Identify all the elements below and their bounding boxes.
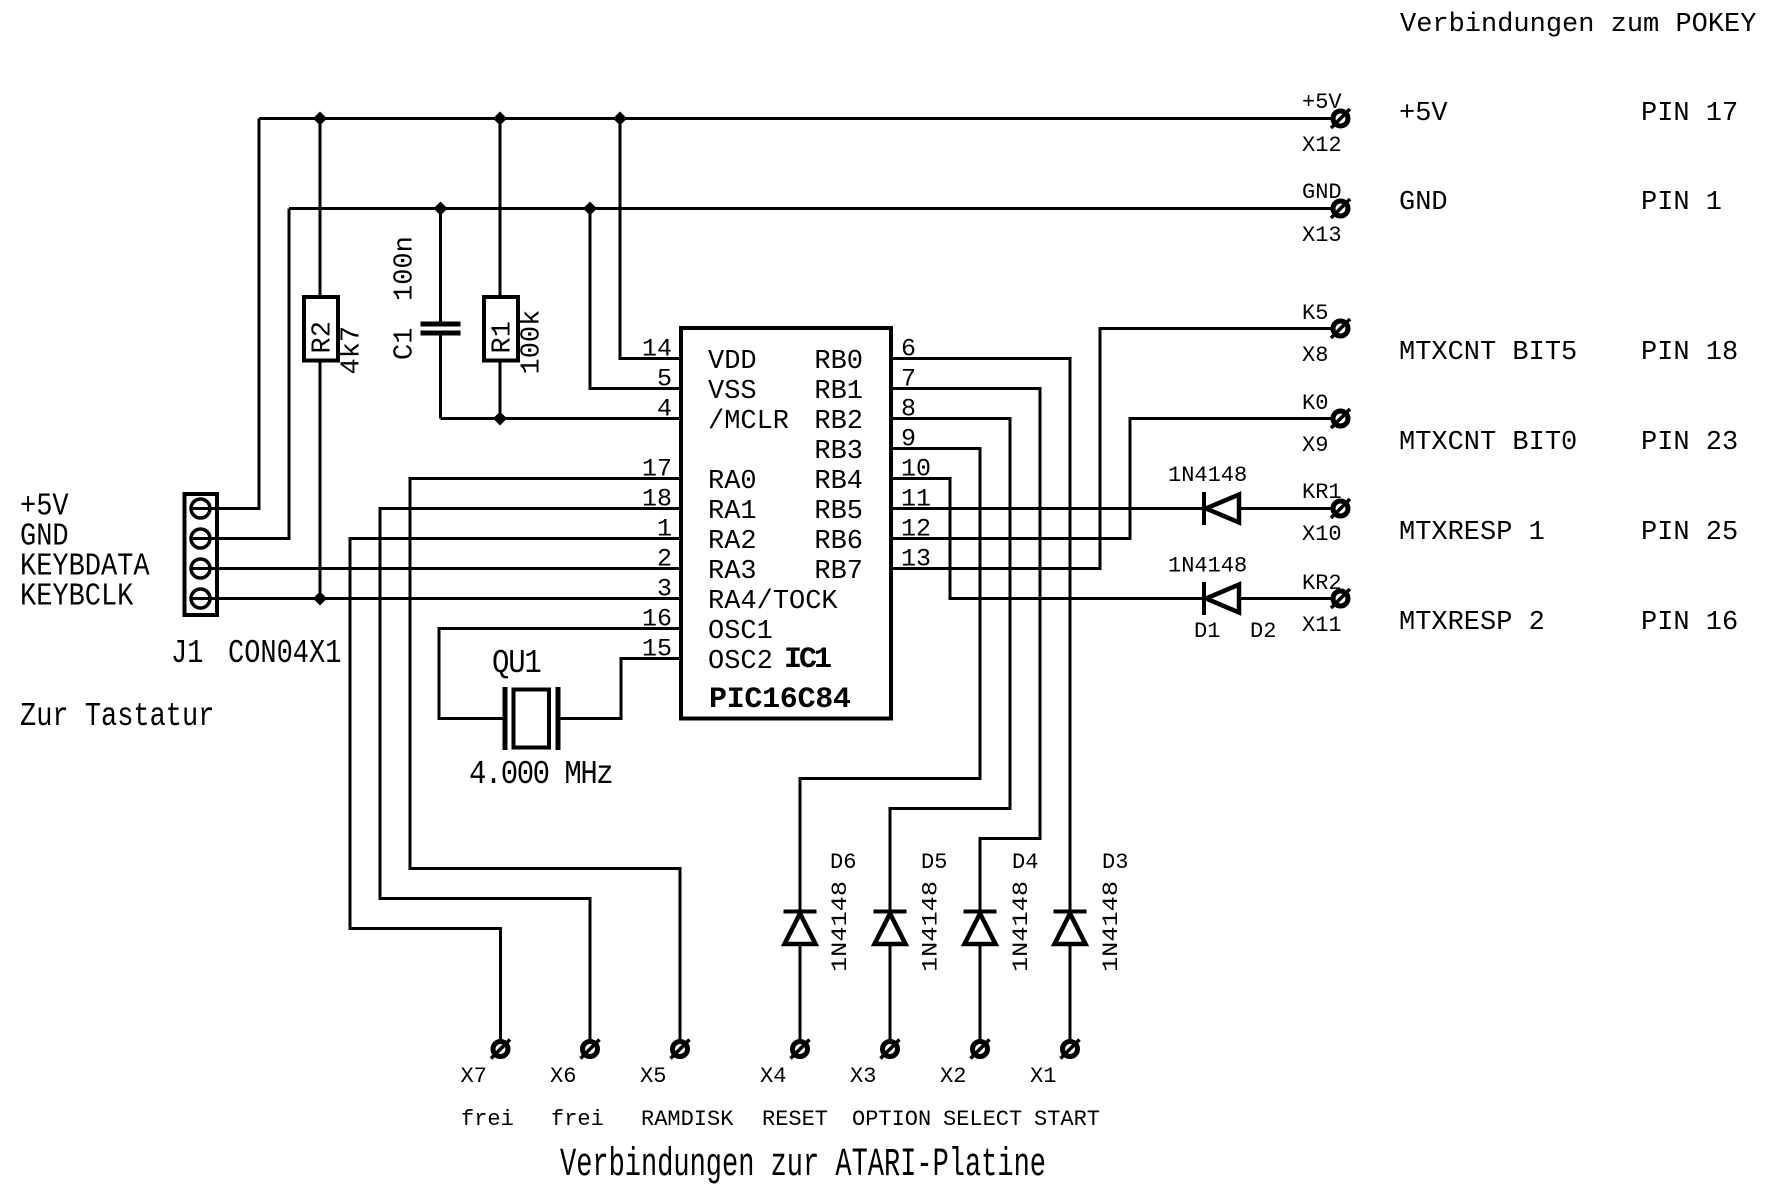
svg-text:+5V: +5V <box>1302 90 1342 115</box>
svg-text:1N4148: 1N4148 <box>1009 881 1034 972</box>
wire OSC1 pin16 to crystal <box>439 629 681 719</box>
svg-text:SELECT: SELECT <box>943 1107 1022 1132</box>
wire D2 to X11 <box>1239 597 1331 600</box>
svg-text:RA3: RA3 <box>708 557 757 587</box>
svg-text:12: 12 <box>901 515 931 544</box>
svg-text:D5: D5 <box>921 850 947 875</box>
svg-text:PIN 25: PIN 25 <box>1641 518 1738 548</box>
svg-text:+5V: +5V <box>1399 99 1448 129</box>
svg-text:D6: D6 <box>830 850 856 875</box>
node junction +5V/R1 <box>493 112 507 126</box>
wire RB6 pin12 K0 net to X9 <box>891 419 1331 539</box>
capacitor C1 <box>391 236 461 360</box>
diode D3 1N4148 <box>1054 850 1129 972</box>
svg-text:D2: D2 <box>1250 619 1276 644</box>
svg-text:X11: X11 <box>1302 613 1342 638</box>
svg-text:X6: X6 <box>550 1064 576 1089</box>
wire RB2 pin8 to D5 <box>890 419 1010 912</box>
svg-text:18: 18 <box>642 485 672 514</box>
op-amp IC1 PIC16C84 box <box>681 328 891 719</box>
wire RB0 pin6 to D3 <box>891 359 1070 912</box>
svg-text:X4: X4 <box>760 1064 786 1089</box>
svg-text:RESET: RESET <box>762 1107 828 1132</box>
svg-text:RB4: RB4 <box>814 467 863 497</box>
svg-text:CON04X1: CON04X1 <box>228 636 341 673</box>
node junction +5V/R2 <box>313 112 327 126</box>
svg-text:3: 3 <box>657 575 672 604</box>
svg-text:X9: X9 <box>1302 433 1328 458</box>
pad X11 <box>1302 571 1350 638</box>
svg-text:C1: C1 <box>391 328 421 360</box>
wire R1 top lead <box>499 119 502 298</box>
diode D1 1N4148 <box>1168 463 1247 644</box>
svg-text:X1: X1 <box>1030 1064 1056 1089</box>
svg-text:MTXCNT BIT5: MTXCNT BIT5 <box>1399 338 1577 368</box>
pad X5 <box>640 1040 690 1090</box>
node junction GND/C1 <box>434 202 448 216</box>
svg-text:R1: R1 <box>489 321 519 353</box>
pad X12 <box>1302 90 1350 158</box>
svg-text:8: 8 <box>901 395 916 424</box>
svg-text:100n: 100n <box>391 236 421 301</box>
pad X1 <box>1030 1040 1080 1090</box>
svg-text:OPTION: OPTION <box>852 1107 931 1132</box>
wire RA1 pin18 to X6 <box>380 509 681 1042</box>
svg-text:X7: X7 <box>461 1064 487 1089</box>
pad X2 <box>940 1040 990 1090</box>
svg-text:KR1: KR1 <box>1302 480 1342 505</box>
svg-text:J1: J1 <box>171 636 203 673</box>
svg-text:K5: K5 <box>1302 301 1328 326</box>
svg-text:2: 2 <box>657 545 672 574</box>
svg-text:4: 4 <box>657 395 672 424</box>
wire D6 to X4 <box>799 944 802 1041</box>
connector J1 CON04X1 <box>171 494 341 673</box>
svg-text:RA1: RA1 <box>708 497 757 527</box>
svg-text:11: 11 <box>901 485 931 514</box>
svg-text:X8: X8 <box>1302 343 1328 368</box>
resistor R1 <box>484 297 548 375</box>
svg-text:Zur Tastatur: Zur Tastatur <box>20 699 214 736</box>
svg-text:1N4148: 1N4148 <box>1099 881 1124 972</box>
wire R1 bottom lead to /MCLR net <box>499 361 502 419</box>
svg-text:10: 10 <box>901 455 931 484</box>
svg-text:X10: X10 <box>1302 522 1342 547</box>
svg-text:RB6: RB6 <box>814 527 863 557</box>
svg-text:4.000 MHz: 4.000 MHz <box>469 756 612 793</box>
diode D4 1N4148 <box>964 850 1039 972</box>
resistor R2 <box>304 297 368 375</box>
wire RA0 pin17 to X5 <box>410 479 681 1042</box>
svg-text:PIN 23: PIN 23 <box>1641 428 1738 458</box>
svg-text:17: 17 <box>642 455 672 484</box>
svg-text:X12: X12 <box>1302 133 1342 158</box>
svg-text:13: 13 <box>901 545 931 574</box>
svg-text:GND: GND <box>1302 180 1342 205</box>
pad X6 <box>550 1040 600 1090</box>
pad X13 <box>1302 180 1350 248</box>
wire RB4 pin10 KR2 net to D2 <box>891 479 1202 599</box>
svg-text:RA4/TOCK: RA4/TOCK <box>708 587 838 617</box>
svg-text:START: START <box>1034 1107 1100 1132</box>
wire OSC2 pin15 to crystal <box>561 659 682 719</box>
svg-text:1N4148: 1N4148 <box>1168 554 1247 579</box>
pad X9 <box>1302 391 1350 458</box>
wire KEYBDATA J1 pin3 to IC pin2 <box>211 567 682 570</box>
svg-text:Verbindungen zur ATARI-Platine: Verbindungen zur ATARI-Platine <box>560 1143 1046 1186</box>
svg-text:KEYBCLK: KEYBCLK <box>20 579 134 614</box>
svg-text:K0: K0 <box>1302 391 1328 416</box>
svg-text:4k7: 4k7 <box>338 326 368 375</box>
svg-text:9: 9 <box>901 425 916 454</box>
pad X7 <box>461 1040 511 1090</box>
diode D6 1N4148 <box>784 850 857 972</box>
svg-text:D1: D1 <box>1194 619 1220 644</box>
svg-text:RAMDISK: RAMDISK <box>641 1107 734 1132</box>
svg-text:X5: X5 <box>640 1064 666 1089</box>
svg-text:6: 6 <box>901 335 916 364</box>
svg-text:PIN 17: PIN 17 <box>1641 99 1738 129</box>
svg-text:PIC16C84: PIC16C84 <box>709 683 851 717</box>
svg-text:frei: frei <box>551 1107 604 1132</box>
svg-text:1: 1 <box>657 515 672 544</box>
svg-text:5: 5 <box>657 365 672 394</box>
svg-text:PIN 16: PIN 16 <box>1641 608 1738 638</box>
wire +5V rail <box>259 117 1331 120</box>
svg-text:15: 15 <box>642 635 672 664</box>
svg-text:RA2: RA2 <box>708 527 757 557</box>
svg-text:KR2: KR2 <box>1302 571 1342 596</box>
diode D5 1N4148 <box>874 850 948 972</box>
svg-text:D4: D4 <box>1012 850 1038 875</box>
svg-text:1N4148: 1N4148 <box>1168 463 1247 488</box>
svg-text:RA0: RA0 <box>708 467 757 497</box>
pad X10 <box>1302 480 1350 547</box>
pad X3 <box>850 1040 900 1090</box>
svg-text:MTXCNT BIT0: MTXCNT BIT0 <box>1399 428 1577 458</box>
svg-text:X3: X3 <box>850 1064 876 1089</box>
svg-text:VDD: VDD <box>708 347 757 377</box>
svg-text:PIN 1: PIN 1 <box>1641 188 1722 218</box>
wire D4 to X2 <box>979 944 982 1041</box>
wire +5V drop to J1 pin1 <box>211 119 260 509</box>
wire GND rail <box>289 207 1331 210</box>
svg-text:MTXRESP 2: MTXRESP 2 <box>1399 608 1545 638</box>
wire RA2 pin1 to X7 <box>350 539 681 1042</box>
svg-text:GND: GND <box>1399 188 1448 218</box>
svg-text:RB7: RB7 <box>814 557 863 587</box>
svg-text:Verbindungen zum POKEY: Verbindungen zum POKEY <box>1400 10 1756 40</box>
wire C1 bottom lead <box>439 336 442 419</box>
svg-text:MTXRESP 1: MTXRESP 1 <box>1399 518 1545 548</box>
svg-text:D3: D3 <box>1102 850 1128 875</box>
svg-text:1N4148: 1N4148 <box>919 881 944 972</box>
wire R2 top lead <box>319 119 322 298</box>
svg-text:X13: X13 <box>1302 223 1342 248</box>
node junction GND/VSS <box>583 202 597 216</box>
svg-text:R2: R2 <box>309 321 339 353</box>
svg-text:14: 14 <box>642 335 672 364</box>
svg-text:PIN 18: PIN 18 <box>1641 338 1738 368</box>
wire GND drop to J1 pin2 <box>211 209 290 539</box>
svg-text:X2: X2 <box>940 1064 966 1089</box>
wire D1 to X10 <box>1239 507 1331 510</box>
svg-text:RB1: RB1 <box>814 377 863 407</box>
svg-text:RB2: RB2 <box>814 407 863 437</box>
wire D5 to X3 <box>889 944 892 1041</box>
svg-text:frei: frei <box>461 1107 514 1132</box>
node junction +5V/VDD <box>613 112 627 126</box>
svg-text:VSS: VSS <box>708 377 757 407</box>
svg-text:RB5: RB5 <box>814 497 863 527</box>
svg-text:IC1: IC1 <box>784 643 831 677</box>
wire C1 top lead from GND rail <box>439 209 442 322</box>
node junction R2/KEYBCLK <box>313 592 327 606</box>
svg-text:/MCLR: /MCLR <box>708 407 789 437</box>
pad X4 <box>760 1040 810 1090</box>
wire RB7 pin13 K5 net to X8 <box>891 329 1331 569</box>
svg-text:7: 7 <box>901 365 916 394</box>
svg-text:OSC1: OSC1 <box>708 617 773 647</box>
svg-text:100k: 100k <box>518 310 548 375</box>
wire KEYBCLK J1 pin4 to IC pin3 <box>211 597 682 600</box>
svg-text:RB0: RB0 <box>814 347 863 377</box>
wire RB5 pin11 KR1 net to D1 <box>891 507 1202 510</box>
svg-text:OSC2: OSC2 <box>708 647 773 677</box>
crystal QU1 <box>469 645 612 793</box>
wire /MCLR net to IC pin 4 <box>441 417 682 420</box>
wire R2 bottom lead to KEYBCLK <box>319 361 322 599</box>
wire RB1 pin7 to D4 <box>891 389 1040 912</box>
svg-text:1N4148: 1N4148 <box>828 881 853 972</box>
node junction R1//MCLR <box>493 412 507 426</box>
wire D3 to X1 <box>1069 944 1072 1041</box>
svg-text:16: 16 <box>642 605 672 634</box>
pad X8 <box>1302 301 1350 368</box>
wire VSS net to IC pin 5 <box>590 209 681 389</box>
svg-text:QU1: QU1 <box>492 645 541 682</box>
svg-text:RB3: RB3 <box>814 437 863 467</box>
diode D2 1N4148 <box>1168 554 1276 645</box>
wire RB3 pin9 to D6 <box>800 449 980 912</box>
wire VDD net to IC pin 14 <box>620 119 681 359</box>
